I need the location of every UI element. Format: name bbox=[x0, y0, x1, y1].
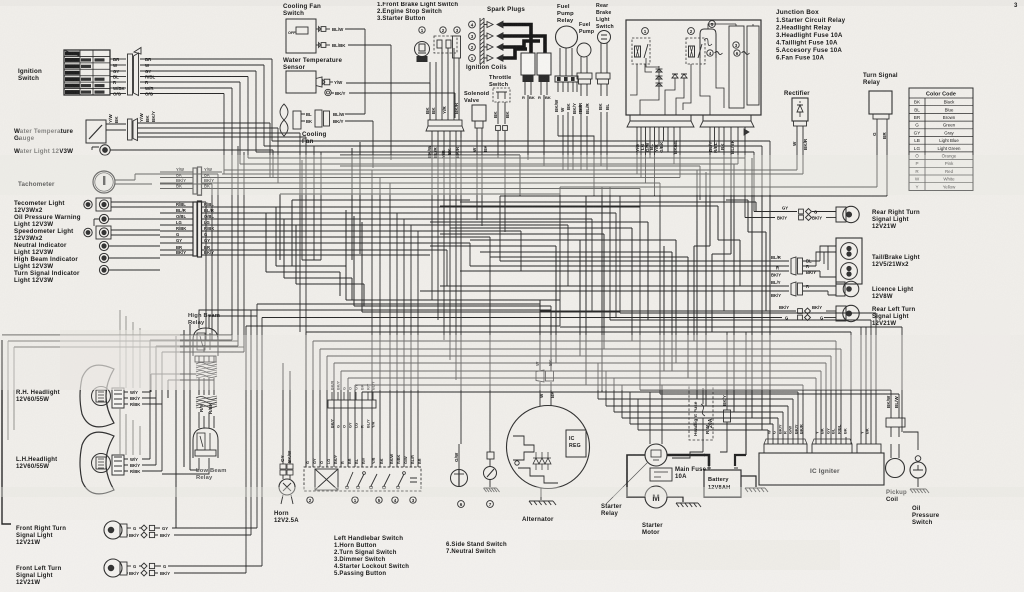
wire starter relay coil feeds bbox=[650, 385, 662, 444]
battery bbox=[704, 470, 741, 497]
tail brake light connector bbox=[791, 257, 796, 275]
wire cooling fan drop BK/Y bbox=[372, 121, 374, 168]
neutral indicator bulb bbox=[99, 241, 108, 250]
wire ignition staircase drops bbox=[224, 59, 272, 174]
tachometer gauge bbox=[93, 171, 115, 193]
low beam relay coil hatch bbox=[196, 396, 217, 408]
starter relay pointer bbox=[606, 462, 648, 504]
ignition switch row wires and labels bbox=[110, 58, 126, 60]
ignition switch contact table bbox=[64, 50, 110, 95]
fuel pump relay bbox=[556, 26, 578, 48]
wire igniter pin drops bbox=[768, 327, 902, 437]
pickup ground bbox=[910, 489, 929, 493]
wire right handlebar comb drops bbox=[432, 131, 461, 444]
junction box relay 2 headlight relay bbox=[688, 28, 695, 35]
alternator ground bbox=[540, 488, 542, 500]
wire meter pin buses bbox=[222, 207, 640, 255]
battery positive cable bbox=[735, 455, 746, 466]
LH headlight reflector bbox=[80, 432, 114, 494]
spark plug hatched bar bbox=[480, 18, 484, 64]
wire junction comb left drops bbox=[637, 134, 680, 196]
LH headlight bulb bbox=[92, 454, 111, 473]
front signal riser wires bbox=[246, 304, 262, 573]
left handlebar switch box bbox=[304, 467, 421, 491]
wire upper bus drops bbox=[528, 95, 770, 218]
water temp gauge connector bbox=[128, 119, 133, 140]
wire upper band extra 2 bbox=[346, 300, 620, 312]
headlight feed bus bbox=[150, 339, 232, 341]
tecometer light bulbs bbox=[96, 198, 111, 211]
wire pickup coil feeds bbox=[640, 183, 899, 410]
low beam relay bbox=[193, 428, 218, 458]
junction box fuse 6 fan bbox=[734, 50, 740, 56]
turn signal relay leads bbox=[877, 119, 887, 196]
wire meter bus drops bbox=[447, 189, 640, 445]
wire water sensor drop BK/Y bbox=[454, 93, 456, 118]
wire mid band extra verticals bbox=[586, 158, 752, 418]
wire junction to rear extras bbox=[655, 152, 669, 196]
beam relay drop wires bbox=[198, 378, 200, 395]
junction box fuse holder right 2 bbox=[747, 26, 759, 105]
meter harness connector lower bbox=[193, 202, 197, 256]
starter motor bbox=[645, 486, 667, 508]
headlight riser wires bbox=[150, 392, 162, 471]
oil pressure switch feed bbox=[903, 432, 918, 450]
starter motor ground bbox=[676, 503, 701, 507]
RH headlight wires bbox=[124, 392, 128, 404]
tail brake light wires bbox=[460, 261, 789, 271]
water temperature sensor box bbox=[286, 71, 316, 93]
wire tail and licence feeds bbox=[500, 187, 560, 326]
horn connectors bbox=[280, 464, 286, 469]
oil pressure switch bbox=[910, 462, 926, 478]
spark plug rows bbox=[469, 21, 476, 28]
pickup coil bbox=[886, 459, 905, 478]
meter connector pin wires upper bbox=[160, 171, 222, 173]
fuel pump bbox=[577, 43, 591, 57]
wire cooling fan riser BL/W bbox=[364, 29, 366, 114]
IC igniter connector comb left bbox=[764, 444, 807, 453]
RH headlight connector bbox=[112, 388, 124, 408]
rear brake light switch bbox=[598, 31, 611, 44]
left handlebar turn switch X symbol bbox=[315, 469, 338, 490]
high beam relay bbox=[193, 328, 218, 356]
wire ignition switch feed bus bbox=[160, 59, 272, 94]
spark plug lead 4 bbox=[503, 25, 531, 54]
water temp sensor ground wire bbox=[325, 89, 331, 95]
junction box outline bbox=[626, 20, 761, 115]
spark plug lead 3 bbox=[503, 36, 545, 53]
oil pressure warning bulb bbox=[99, 214, 108, 223]
junction box lower connector comb left bbox=[630, 115, 691, 121]
wire water gauge loom bbox=[160, 123, 306, 137]
junction box lower connector comb right bbox=[703, 115, 751, 121]
accessory wire with connector bbox=[726, 332, 728, 444]
pickup coil connector bbox=[886, 418, 905, 427]
alternator IC regulator box bbox=[566, 430, 586, 457]
rear right turn signal light bbox=[754, 211, 797, 213]
licence light lamp bbox=[836, 282, 845, 296]
starter relay bbox=[645, 444, 667, 466]
ignition coil 2 bbox=[537, 53, 551, 75]
engine stop switch symbol bbox=[440, 27, 446, 33]
main fuse bbox=[650, 468, 672, 481]
wire tachometer loom bbox=[160, 174, 218, 340]
wire right mid connectors bbox=[762, 187, 770, 430]
turn signal indicator bulb bbox=[99, 265, 108, 274]
water temperature gauge bbox=[86, 120, 106, 143]
wire coil drops bbox=[528, 95, 544, 166]
scan smudges bbox=[60, 330, 180, 390]
junction box diode stack bbox=[656, 69, 662, 72]
headlight fuse dashed box bbox=[689, 385, 713, 440]
throttle switch symbol bbox=[493, 88, 510, 102]
wire fuel pump relay drops bbox=[558, 112, 573, 170]
alternator bbox=[507, 406, 590, 489]
alternator leads bbox=[540, 382, 551, 406]
ignition switch connector bbox=[128, 54, 133, 95]
junction box relay 1 starter circuit relay bbox=[642, 28, 649, 35]
wire water light drop bbox=[160, 150, 273, 178]
left handlebar switch pin numbers bbox=[307, 497, 313, 503]
water temp sensor output wire bbox=[316, 77, 322, 87]
ignition coil 1 bbox=[521, 53, 535, 75]
wire front signal riser horizontals bbox=[246, 304, 560, 326]
front left turn signal wires bbox=[127, 565, 131, 567]
wire lower main bus bbox=[306, 327, 902, 392]
junction box fuse 4 taillight bbox=[707, 50, 713, 56]
junction box diode pair bbox=[672, 74, 679, 78]
wire staircase risers bbox=[598, 363, 638, 430]
starter button symbol bbox=[454, 27, 460, 33]
wire handlebar risers bbox=[306, 332, 362, 467]
solenoid valve symbol bbox=[472, 105, 486, 121]
turn signal relay bbox=[869, 91, 892, 114]
neutral switch bbox=[487, 452, 494, 459]
junction box fuse holder right 1 bbox=[729, 26, 744, 108]
wire misc crossers bbox=[302, 160, 700, 271]
wire lower left extra bbox=[151, 324, 214, 528]
water light bulb bbox=[100, 145, 110, 155]
junction box internal wiring bbox=[630, 64, 637, 95]
meter sub connector comb bbox=[328, 400, 376, 408]
wire upper mid bus bbox=[222, 141, 803, 189]
rectifier bbox=[792, 98, 808, 121]
cooling fan connector bbox=[315, 110, 322, 127]
fuel pump connector bbox=[577, 73, 592, 79]
front brake light switch symbol bbox=[419, 27, 425, 33]
high beam relay coil hatch bbox=[196, 362, 217, 378]
wire igniter far comb feeds bbox=[610, 313, 876, 437]
alternator internal windings bbox=[513, 436, 534, 460]
licence light wires bbox=[420, 286, 789, 291]
RH headlight reflector bbox=[80, 365, 114, 427]
right handlebar connector comb bbox=[428, 120, 462, 126]
LH headlight connector bbox=[112, 455, 124, 475]
wire cooling fan switch drop BL/BK bbox=[390, 45, 392, 160]
wire battery positive riser bbox=[745, 332, 747, 420]
IC igniter connector comb right bbox=[812, 444, 852, 453]
meter connector pin wires lower bbox=[160, 206, 222, 208]
speedometer light bulbs bbox=[96, 226, 111, 239]
rear left turn signal light bbox=[540, 310, 796, 312]
wire left mid staircases bbox=[266, 207, 364, 284]
horn bbox=[279, 479, 295, 495]
rectifier leads bbox=[797, 126, 803, 174]
color code table bbox=[909, 88, 973, 191]
front right turn signal wires bbox=[127, 527, 131, 529]
cooling fan switch output wires bbox=[316, 28, 320, 30]
wire water sensor drop Y/W bbox=[429, 83, 431, 120]
wire left low band bbox=[2, 335, 244, 347]
wire upper band extra bbox=[280, 155, 560, 266]
junction box fuse 5 accessory bbox=[709, 21, 716, 28]
battery ground cable bbox=[741, 476, 756, 487]
wire faint verticals near headlights bbox=[120, 310, 140, 388]
wire junction comb right drops bbox=[710, 134, 745, 311]
LH headlight wires bbox=[124, 459, 128, 471]
wire lower staircase buses bbox=[598, 399, 793, 430]
wire turn signal relay G line bbox=[560, 186, 877, 188]
wire horn feeds bbox=[283, 363, 290, 444]
front left turn signal bulb bbox=[104, 559, 122, 577]
cooling fan switch box bbox=[286, 19, 316, 53]
tail brake light lamp bbox=[836, 238, 862, 284]
cooling fan motor bbox=[280, 104, 288, 120]
IC igniter connector comb far right bbox=[857, 444, 881, 453]
high beam indicator bulb bbox=[99, 253, 108, 262]
spark plug lead 1 bbox=[503, 49, 527, 58]
wire fuel pump drop link bbox=[593, 148, 595, 196]
wire alternator feed horizontals bbox=[540, 304, 551, 371]
fuel pump relay connector bbox=[555, 76, 578, 82]
front right turn signal bulb bbox=[104, 521, 122, 539]
spark plug lead 2 bbox=[503, 41, 540, 47]
alternator diodes bbox=[533, 458, 539, 464]
wire mid right staircases bbox=[615, 205, 617, 207]
wire headlight fuse drop bbox=[702, 440, 704, 452]
starter cables bbox=[627, 455, 645, 497]
IC igniter bbox=[759, 453, 884, 485]
wire turn signal relay BR line bbox=[500, 195, 887, 197]
tail brake light bracket bbox=[820, 246, 836, 261]
wire mid band extra horizontals bbox=[460, 202, 756, 212]
left edge wire bbox=[2, 340, 11, 524]
meter harness connector upper bbox=[193, 168, 197, 194]
rear brake switch connector bbox=[596, 73, 610, 79]
RH headlight bulb bbox=[92, 387, 111, 406]
left handlebar switch contacts bbox=[347, 472, 353, 486]
